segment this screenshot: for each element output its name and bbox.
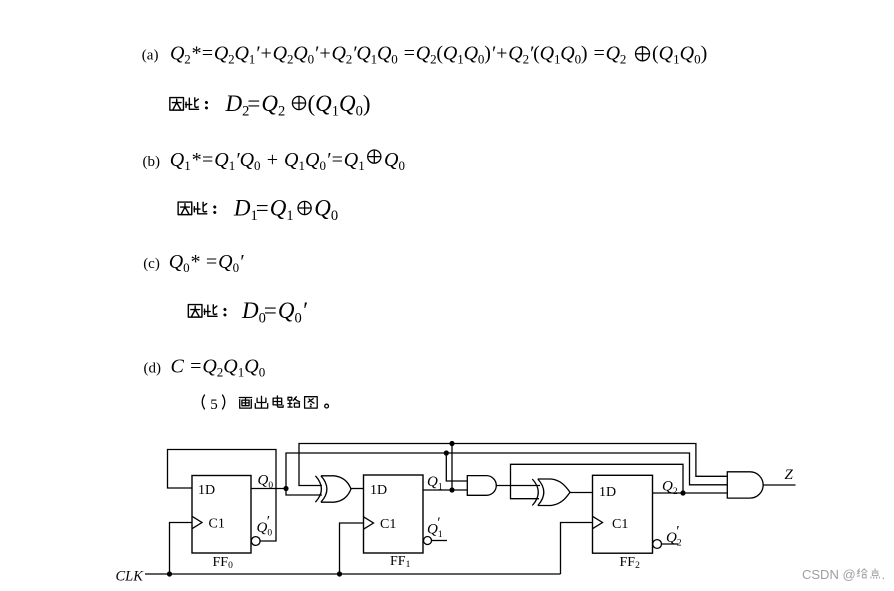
- svg-text:Q2: Q2: [662, 479, 678, 498]
- svg-text:C1: C1: [209, 517, 225, 532]
- wire Q1' stub: [432, 540, 448, 542]
- wire XOR2 output to FF2 1D: [570, 492, 593, 494]
- net label Q1: [427, 474, 443, 493]
- svg-text:D1=Q1: D1=Q1: [233, 196, 294, 225]
- pin label 1D of FF2: [599, 485, 616, 500]
- flip-flop FF1 clock triangle: [364, 517, 374, 529]
- svg-text:Q0: Q0: [314, 196, 338, 225]
- net label Q2: [662, 479, 678, 498]
- svg-text:D2=Q2: D2=Q2: [225, 91, 286, 120]
- label FF1: [390, 554, 411, 570]
- watermark CSDN: [802, 567, 885, 582]
- svg-text:CLK: CLK: [116, 569, 145, 585]
- svg-text:(Q1Q0): (Q1Q0): [308, 91, 371, 120]
- svg-text:(c): (c): [143, 256, 160, 272]
- net label Q0': [257, 514, 273, 539]
- wire Q2' stub: [662, 543, 678, 545]
- wire CLK to FF1 C1: [340, 523, 364, 574]
- node junction CLK/FF1: [337, 571, 342, 576]
- svg-text:Q0: Q0: [258, 473, 274, 492]
- wire net Q1 top rail: XOR1 upper input to AND2 top input: [299, 444, 727, 486]
- svg-text:(b): (b): [143, 154, 161, 170]
- pin label 1D of FF1: [370, 483, 387, 498]
- svg-text:Q0* =Q0′: Q0* =Q0′: [169, 251, 244, 275]
- svg-text:1D: 1D: [198, 483, 215, 498]
- node junction Q0 branch: [283, 486, 288, 491]
- svg-text:5: 5: [210, 397, 218, 413]
- flip-flop FF0 box: [192, 476, 251, 554]
- AND gate U2 (Q1Q0): [467, 476, 496, 496]
- svg-text:1D: 1D: [599, 485, 616, 500]
- wire CLK to FF0 C1: [170, 523, 193, 575]
- wire Q1 riser from Q1 output to top rail: [451, 444, 453, 491]
- label FF0: [213, 555, 234, 571]
- AND gate U4 (Z = Q2Q1Q0): [727, 472, 763, 498]
- svg-text:Q2′: Q2′: [666, 524, 682, 549]
- svg-text:Q0′: Q0′: [257, 514, 273, 539]
- pin label C1 of FF0: [209, 517, 225, 532]
- svg-text:D0=Q0′: D0=Q0′: [241, 298, 308, 327]
- FF0 Q0' inverted-output bubble: [251, 537, 260, 546]
- XOR gate U1 (D1 = Q1 xor Q0): [315, 476, 351, 502]
- net label Q0: [258, 473, 274, 492]
- svg-text:Q1*=Q1′Q0 + Q1Q0′=Q1: Q1*=Q1′Q0 + Q1Q0′=Q1: [170, 149, 365, 173]
- svg-text:FF1: FF1: [390, 554, 411, 570]
- net label CLK: [116, 569, 145, 585]
- svg-text:(d): (d): [144, 360, 162, 376]
- svg-text:(Q1Q0): (Q1Q0): [652, 43, 707, 67]
- svg-text:.: .: [882, 567, 886, 582]
- svg-text:C1: C1: [380, 517, 396, 532]
- svg-text:C =Q2Q1Q0: C =Q2Q1Q0: [171, 355, 266, 379]
- wire Q0 output from FF0: [251, 488, 286, 490]
- label FF2: [620, 555, 641, 571]
- wire AND1 output to XOR2 upper input: [496, 485, 540, 487]
- node junction Q2 output: [680, 490, 685, 495]
- svg-text:CSDN @: CSDN @: [802, 567, 856, 582]
- node junction Q1 rail top: [449, 441, 454, 446]
- node junction CLK/FF0: [167, 571, 172, 576]
- FF1 Q1' inverted-output bubble: [424, 537, 432, 545]
- node junction Q0 rail / AND1: [444, 450, 449, 455]
- svg-text:(a): (a): [142, 48, 159, 64]
- XOR gate U3 (D2 = Q2 xor Q1Q0): [532, 479, 570, 506]
- wire CLK rail: [145, 573, 561, 575]
- svg-text:Q0: Q0: [384, 149, 405, 173]
- wire Q2 feedback to XOR2 lower input: [511, 464, 684, 498]
- svg-text:1D: 1D: [370, 483, 387, 498]
- svg-text:Q1: Q1: [427, 474, 443, 493]
- FF2 Q2' inverted-output bubble: [653, 540, 662, 549]
- net label Q2': [666, 524, 682, 549]
- pin label 1D of FF0: [198, 483, 215, 498]
- flip-flop FF2 clock triangle: [593, 516, 603, 528]
- wire Q1 output to AND1 lower input: [423, 489, 467, 491]
- pin label C1 of FF2: [612, 517, 628, 532]
- wire CLK to FF2 C1: [561, 523, 593, 575]
- flip-flop FF2 box: [593, 475, 653, 553]
- pin label C1 of FF1: [380, 517, 396, 532]
- svg-text:C1: C1: [612, 517, 628, 532]
- wire FF0 Q0' feedback to FF0 1D: [168, 450, 277, 542]
- svg-text:Q1′: Q1′: [427, 515, 443, 540]
- svg-text:Z: Z: [785, 467, 794, 483]
- svg-text:Q2*=Q2Q1′+Q2Q0′+Q2′Q1Q0 =Q2(Q1: Q2*=Q2Q1′+Q2Q0′+Q2′Q1Q0 =Q2(Q1Q0)′+Q2′(Q…: [170, 43, 626, 67]
- flip-flop FF0 clock triangle: [192, 516, 202, 528]
- flip-flop FF1 box: [364, 475, 424, 553]
- wire Q0 branch to AND1 upper input: [446, 453, 467, 481]
- wire net Q0 top rail to AND2 middle input: [286, 453, 727, 489]
- svg-text:FF0: FF0: [213, 555, 234, 571]
- node junction Q1 output: [449, 487, 454, 492]
- wire Q2 output to AND2 bottom input: [653, 492, 728, 494]
- wire Q0 to XOR1 lower input: [286, 489, 322, 496]
- net label Q1': [427, 515, 443, 540]
- svg-text:FF2: FF2: [620, 555, 641, 571]
- wire Z output: [763, 484, 795, 486]
- wire XOR1 output to FF1 1D: [351, 488, 364, 490]
- net label Z: [785, 467, 794, 483]
